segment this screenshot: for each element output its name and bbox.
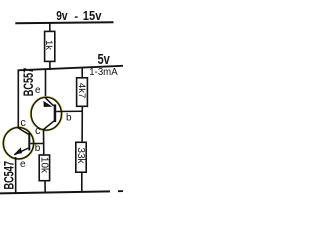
svg-text:c: c [35, 125, 41, 137]
svg-text:1-3mA: 1-3mA [89, 67, 117, 78]
svg-text:1k: 1k [43, 40, 54, 50]
svg-text:10k: 10k [39, 157, 50, 174]
svg-text:9v: 9v [56, 8, 68, 23]
svg-text:BC547: BC547 [1, 161, 16, 190]
svg-text:4k7: 4k7 [76, 83, 87, 98]
svg-text:5v: 5v [98, 51, 111, 68]
svg-text:e: e [35, 85, 41, 96]
svg-text:e: e [20, 159, 26, 170]
svg-text:15v: 15v [83, 8, 102, 23]
svg-text:b: b [66, 113, 72, 124]
svg-text:BC557: BC557 [21, 68, 36, 97]
svg-text:b: b [35, 143, 41, 154]
svg-text:c: c [20, 117, 26, 129]
svg-text:33k: 33k [75, 147, 86, 164]
